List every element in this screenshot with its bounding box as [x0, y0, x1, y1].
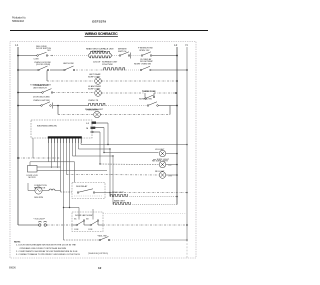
broil resistor y196.5 — [110, 195, 128, 197]
switch row2 right — [140, 66, 151, 70]
node y144.5 x97 — [107, 144, 108, 145]
node N row2 — [186, 69, 188, 71]
svg-text:COM: COM — [88, 229, 93, 231]
switch row4 label — [33, 84, 49, 89]
latch motor box — [28, 166, 38, 173]
wire branch to lamp row3 — [47, 80, 94, 82]
door switch label — [34, 46, 52, 61]
lamp row3 — [95, 78, 102, 85]
wire box A right out — [95, 192, 110, 194]
wire dotted after door switch — [48, 55, 88, 57]
wire latch motor pin2 long — [37, 170, 107, 172]
infinite switch row1 — [119, 52, 131, 59]
bundle vertical 3 — [54, 143, 56, 162]
wire between switches — [132, 55, 142, 57]
switch row4 — [42, 89, 53, 94]
svg-text:1250 W: 1250 W — [93, 62, 100, 64]
bundle vertical 5 — [60, 143, 62, 192]
door switch row1 — [37, 52, 48, 56]
node L1 row5 — [17, 105, 19, 107]
svg-text:* TOD 250°F: * TOD 250°F — [33, 219, 46, 221]
wire element to switch row5 — [106, 105, 147, 107]
node L2 row4 — [175, 92, 177, 94]
svg-text:RIGHT OVEN SW: RIGHT OVEN SW — [134, 64, 151, 66]
L1 corner to row — [18, 224, 28, 226]
wire between switches row2 — [50, 69, 64, 71]
bypass switch row4 — [145, 93, 155, 99]
lamp B wire right — [166, 164, 177, 166]
node N y192.5 — [186, 192, 188, 194]
anti-tip switch row1 label — [138, 48, 153, 63]
bundle vertical 2 — [51, 143, 53, 168]
element resistor row5 — [88, 103, 106, 105]
lamp row4 — [95, 90, 102, 97]
wire lamp row3 to L2 — [101, 80, 177, 82]
chassis frame dash-dot rectangle — [10, 42, 196, 259]
lamp C wire right — [166, 174, 177, 176]
bundle vertical 6 — [63, 143, 65, 240]
svg-text:WIRING SCHEMATIC: WIRING SCHEMATIC — [85, 32, 118, 36]
wire L1 to bundle y158 — [18, 157, 61, 159]
mesh horizontal y149 — [79, 148, 111, 150]
resistor pair (parallel elements) — [88, 51, 112, 58]
oven door switch row2 — [38, 66, 49, 71]
conv motor — [35, 187, 42, 194]
EOC pin stub y132 — [92, 131, 100, 133]
wire dashdot to element row2 — [76, 69, 103, 71]
node broil L2 — [176, 196, 178, 198]
wire bake to L2 corner — [133, 204, 178, 206]
wire box A out to N — [110, 192, 187, 194]
wire L1 to switch row4 — [18, 92, 42, 94]
svg-text:DOOR UNLOCKED: DOOR UNLOCKED — [33, 97, 50, 99]
infinite switch row1 label — [118, 49, 127, 54]
bundle vertical 4 — [57, 143, 59, 168]
node N row240 — [186, 239, 188, 241]
thermal cutout — [49, 189, 55, 191]
wire bundle to switch y240 — [64, 239, 100, 241]
svg-text:NO: NO — [48, 50, 52, 52]
switch row1 right — [141, 52, 152, 57]
mesh vertical x97 pin drop — [107, 123, 109, 145]
EOC pin stub y123 — [92, 122, 108, 124]
rail L1 — [17, 47, 19, 225]
node lamp A L2 — [176, 153, 178, 155]
wire switch to element row5 — [53, 105, 88, 107]
bundle vertical 7 — [66, 143, 68, 175]
relay A switch — [77, 189, 95, 194]
EOC pin block aux — [91, 131, 94, 133]
svg-text:2. COMPONENTS SHOWN AT ROOM TE: 2. COMPONENTS SHOWN AT ROOM TEMPERATURE … — [16, 250, 78, 253]
svg-text:UNIT SWITCH: UNIT SWITCH — [33, 87, 47, 89]
mesh vertical x110 — [109, 149, 111, 197]
branch wire down from row2 — [46, 71, 48, 82]
relay B switch 1 contacts label — [74, 219, 89, 221]
svg-text:69606: 69606 — [9, 267, 16, 270]
svg-text:OPEN AND UNLOCKED POSITION AS: OPEN AND UNLOCKED POSITION AS SHOWN — [20, 247, 67, 250]
bundle vertical 12 — [80, 143, 82, 145]
svg-text:BAKE UNIT: BAKE UNIT — [114, 200, 126, 203]
latch motor box label — [27, 175, 39, 179]
svg-text:L1: L1 — [15, 43, 19, 47]
wire conv motor left riser — [27, 183, 29, 191]
node L1 row2 — [17, 69, 19, 71]
bake resistor y204.5 — [113, 203, 131, 205]
relay B switch 1 — [72, 220, 90, 226]
svg-text:NOTE:: NOTE: — [14, 241, 21, 243]
wire broil to L2 — [130, 196, 178, 198]
header rule — [10, 30, 208, 31]
svg-text:GEFS379: GEFS379 — [92, 20, 106, 24]
wire switch y240 to N — [110, 239, 160, 241]
wire element to switch row2 — [124, 69, 140, 71]
node y207.5 x69.5 — [69, 207, 70, 208]
relay box B — [72, 212, 103, 232]
svg-text:(WHEN EQUIPPED): (WHEN EQUIPPED) — [88, 253, 108, 255]
drop from EOC box bottom x33 — [32, 138, 34, 158]
node L1 y158 — [17, 157, 19, 159]
header publication no — [12, 17, 26, 23]
svg-text:OVEN LTS: OVEN LTS — [88, 100, 99, 102]
wire L1 to oven light switch — [18, 105, 41, 107]
relay B switch 2 — [90, 220, 103, 226]
node y144.5 N — [186, 144, 188, 146]
mesh vertical x113 — [112, 156, 114, 205]
wire L1 to oven door switch — [18, 69, 38, 71]
rear vent surface unit label — [86, 48, 114, 64]
wire oven lamp right — [100, 114, 170, 116]
svg-text:DLB RELAY: DLB RELAY — [76, 185, 88, 188]
svg-text:SWITCH: SWITCH — [118, 51, 127, 53]
title underline — [85, 35, 118, 38]
svg-text:L2: L2 — [174, 43, 178, 47]
wire feed box B switch 1 — [78, 208, 80, 220]
mesh horizontal y144.5 — [81, 144, 187, 146]
svg-text:1. DOOR SWITCHES ARE SHOWN WIT: 1. DOOR SWITCHES ARE SHOWN WITH THE DOOR… — [16, 244, 76, 247]
latch switch row2 — [64, 66, 75, 71]
relay B switch 2 contacts label — [74, 229, 93, 231]
branch down from row5 — [57, 106, 59, 115]
svg-text:COM: COM — [34, 58, 39, 60]
svg-text:N: N — [186, 43, 188, 47]
mesh vertical x101 pin drop — [103, 128, 105, 153]
lamp A wire left y152.5 — [104, 152, 159, 154]
node L1 row4 — [17, 92, 19, 94]
bundle vertical 9 — [72, 143, 74, 156]
wire conv motor left stub — [28, 190, 35, 192]
lamp B — [159, 161, 166, 168]
rail N — [186, 47, 188, 240]
wire cutout to bundle — [55, 190, 61, 192]
branch label — [30, 83, 52, 86]
svg-text:1250/750W: 1250/750W — [102, 64, 113, 66]
svg-text:THERM FUSE: THERM FUSE — [142, 91, 156, 93]
svg-text:MOTOR: MOTOR — [29, 177, 37, 179]
wire to L2 — [152, 55, 177, 57]
node L2 row5 — [176, 105, 178, 107]
jog up to row5 — [169, 106, 171, 115]
relay box A — [72, 183, 105, 199]
node y207.5 x63.5 — [63, 207, 64, 208]
node L1 row1 — [17, 55, 19, 57]
latch switch label — [63, 62, 74, 65]
oven lamp element label — [88, 100, 99, 102]
mesh horizontal y156 — [73, 155, 114, 157]
wire conv motor right — [42, 190, 49, 192]
lamp row4 label — [88, 85, 102, 90]
svg-text:OPEN 170°: OPEN 170° — [139, 50, 150, 52]
EOC box outline — [31, 120, 92, 138]
oven light switch label — [33, 100, 50, 102]
wire row240 right solid — [160, 239, 187, 241]
oven lamp — [94, 111, 101, 118]
EOC pin stub y127.5 — [92, 127, 104, 129]
bundle vertical 11 — [78, 143, 80, 149]
svg-text:LATCH SW: LATCH SW — [63, 62, 74, 65]
relay A inner dotted — [74, 195, 102, 197]
svg-text:BROIL UNIT: BROIL UNIT — [112, 192, 124, 194]
bundle vertical 10 — [75, 143, 77, 156]
lamp row3 label — [88, 73, 101, 78]
wire lamp row4 right — [101, 92, 144, 94]
svg-text:* MDL SW: * MDL SW — [97, 235, 107, 237]
wire to N row2 — [152, 69, 187, 71]
mesh vertical x104.5 pin drop — [99, 132, 101, 164]
plug disconnect symbol — [28, 221, 72, 226]
svg-text:12: 12 — [98, 266, 102, 270]
wire box top jog — [30, 162, 75, 183]
oven light switch — [41, 102, 53, 109]
wire row5 to L2 — [159, 105, 178, 107]
wire branch to oven lamp — [58, 114, 94, 116]
svg-text:NORMAL SW: NORMAL SW — [139, 98, 152, 101]
node L2 row3 — [176, 80, 178, 82]
rail L2 — [176, 47, 178, 205]
EOC pin block L1 — [92, 122, 97, 124]
EOC connector comb — [48, 136, 82, 138]
conv motor label — [34, 185, 47, 189]
svg-text:COM: COM — [74, 229, 79, 231]
left rear surface unit label — [102, 61, 118, 67]
switch y240 — [99, 237, 110, 241]
svg-text:ELECTRONIC OVEN CTRL: ELECTRONIC OVEN CTRL — [37, 125, 58, 127]
node row5 branch — [57, 105, 59, 107]
svg-text:OVEN LIGHT SW: OVEN LIGHT SW — [33, 100, 50, 102]
wire into box A — [61, 191, 73, 193]
wire box B top to N dotted — [103, 213, 187, 215]
oven door switch label — [34, 62, 51, 66]
wire L1 to door switch — [18, 55, 37, 57]
svg-text:1630 RPM: 1630 RPM — [34, 197, 43, 199]
wire switch to lamp row4 — [53, 92, 94, 94]
lamp A — [159, 150, 166, 157]
wire box B to N — [103, 224, 187, 226]
wire feed box B switch 2 — [92, 209, 94, 220]
wire drop to broil row — [109, 193, 111, 197]
wire bundle to box B feeds y207.5 — [64, 207, 80, 209]
bundle vertical 8 — [69, 143, 71, 208]
oven lamp label — [86, 110, 99, 112]
lamp A wire right — [166, 153, 177, 155]
switch row5 right — [147, 102, 158, 106]
node lamp B L2 — [176, 164, 178, 166]
svg-text:(DOOR OPEN): (DOOR OPEN) — [36, 64, 50, 66]
EOC pin block N — [91, 127, 96, 129]
rail N lower dashed — [186, 240, 188, 258]
wire latch motor pin1 — [37, 166, 61, 168]
node box A out — [109, 192, 110, 193]
bundle vertical 1 — [48, 143, 50, 162]
node lamp C L2 — [176, 174, 178, 176]
wire row4 to L2 — [154, 92, 176, 94]
node N y225 — [186, 224, 188, 226]
node after door switch — [51, 55, 52, 56]
node L2 row1 — [176, 55, 178, 57]
svg-text:3. CONNECT RANGE TO PROPERLY G: 3. CONNECT RANGE TO PROPERLY GROUNDED OU… — [16, 253, 80, 256]
lamp C wire left y175 — [67, 174, 159, 177]
svg-text:5995424913: 5995424913 — [12, 20, 25, 23]
lamp B wire left y164 — [100, 163, 159, 166]
right front switch row2 label — [134, 64, 151, 66]
surface element resistor row2 — [103, 68, 126, 70]
lamp C — [159, 172, 166, 179]
svg-text:LR LIGHT: LR LIGHT — [155, 149, 165, 151]
wire resistor pair to infinite switch — [112, 55, 120, 57]
EOC pin labels right — [87, 123, 90, 130]
svg-text:DOOR LATCH SW: DOOR LATCH SW — [75, 214, 92, 217]
